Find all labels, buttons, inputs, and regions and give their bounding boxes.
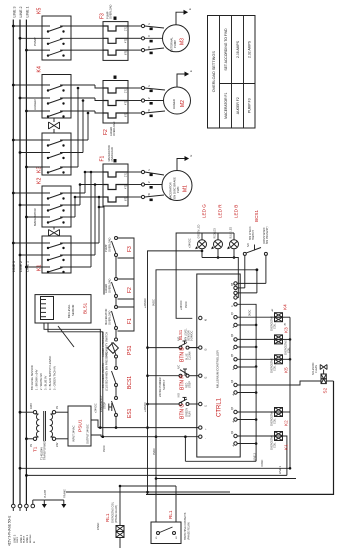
svg-text:4T2: 4T2 [125, 38, 128, 43]
table OVERLOAD SETTINGS [208, 16, 256, 129]
earth arrow M2 [177, 70, 193, 87]
controller outputs Q7..Q1 with terminals [232, 311, 237, 445]
wire to bin level sensor [99, 207, 104, 295]
svg-text:CTRL1: CTRL1 [217, 397, 223, 417]
svg-text:OVERLOAD: OVERLOAD [109, 4, 113, 19]
overload F1 [100, 145, 129, 206]
svg-text:OUTPUT 24VDC: OUTPUT 24VDC [86, 424, 90, 444]
node LINE 3 bus [12, 20, 14, 505]
svg-text:F2: F2 [103, 129, 109, 135]
svg-text:COIL: COIL [274, 418, 277, 424]
motor M2 [164, 87, 191, 114]
svg-text:24VDC POWER: 24VDC POWER [158, 377, 162, 397]
mechanical interlock K2-K1 [49, 227, 60, 236]
svg-text:ES1: ES1 [127, 408, 133, 418]
svg-text:PUMP: PUMP [173, 40, 177, 48]
svg-text:6T3: 6T3 [125, 112, 128, 117]
svg-text:RL1: RL1 [105, 513, 110, 522]
svg-text:1 : BROWN +24V: 1 : BROWN +24V [35, 369, 39, 390]
svg-text:U: U [148, 85, 151, 87]
relay coil RL1 [97, 486, 124, 548]
control chain: bin check switch BCS1 [101, 352, 133, 397]
svg-text:0VDC: 0VDC [152, 448, 156, 455]
svg-text:3 : BLUE 0V: 3 : BLUE 0V [44, 375, 48, 390]
wire LED top common [176, 233, 234, 318]
svg-text:SUPPLY: SUPPLY [162, 379, 166, 390]
svg-text:E: E [189, 155, 193, 157]
svg-text:F2: F2 [127, 287, 133, 293]
svg-text:5 : GREEN TACH-IN: 5 : GREEN TACH-IN [53, 366, 57, 390]
svg-text:4T2: 4T2 [125, 184, 128, 189]
bin check switch BCS1 top [243, 210, 269, 288]
wire bottom rail corner [146, 381, 334, 494]
power supply PSU1 [68, 406, 91, 446]
mechanical interlock K4-K3 [49, 118, 60, 133]
svg-text:2T1: 2T1 [125, 26, 128, 31]
svg-text:(CLOSED WHEN BIN PRESENT): (CLOSED WHEN BIN PRESENT) [104, 352, 108, 391]
button BTN R [148, 365, 199, 390]
svg-text:415V: 415V [30, 403, 33, 409]
motor M1 [162, 171, 192, 201]
svg-text:FRAME: FRAME [64, 489, 67, 498]
svg-text:LINE 2: LINE 2 [19, 534, 23, 543]
wire PSU1 outputs [91, 403, 106, 452]
svg-text:LINE 2: LINE 2 [19, 7, 23, 18]
wire coil return rail [289, 317, 291, 468]
svg-text:PUMP: PUMP [104, 244, 108, 252]
svg-text:SWITCH: SWITCH [252, 230, 255, 240]
svg-text:LINE 1: LINE 1 [26, 7, 30, 18]
svg-text:MILLENIUM CONTROLLER: MILLENIUM CONTROLLER [216, 349, 220, 388]
svg-text:K5: K5 [284, 367, 289, 373]
control chain: emergency stop ES1 [99, 395, 133, 428]
svg-text:AUGER: AUGER [33, 98, 37, 110]
control chain: proximity switch PS1 [101, 332, 133, 367]
svg-text:S2: S2 [323, 387, 328, 393]
svg-text:CLEAN: CLEAN [189, 351, 192, 360]
wires F3 to motor M3 with terminals [128, 23, 164, 55]
node LINE 2 bus [19, 20, 21, 505]
wire dot column [237, 324, 257, 462]
svg-text:OVERLOAD: OVERLOAD [107, 237, 111, 252]
svg-text:4 : BLACK SUPPLY 0-24VDC: 4 : BLACK SUPPLY 0-24VDC [48, 356, 52, 390]
svg-text:BROWN: BROWN [30, 534, 32, 543]
svg-text:K1: K1 [284, 444, 289, 450]
svg-text:U: U [148, 169, 151, 171]
svg-text:K3: K3 [37, 167, 43, 173]
svg-text:LINE 3: LINE 3 [12, 534, 16, 543]
wire T1 secondary to PSU1 [56, 411, 68, 413]
svg-text:2.32 AMPS: 2.32 AMPS [248, 40, 252, 58]
coil K2 [237, 408, 290, 427]
wire tag F2 [114, 76, 117, 79]
svg-text:FWD: FWD [176, 187, 180, 193]
svg-text:0VDC: 0VDC [103, 445, 106, 452]
control chain: aux contact F1 [104, 306, 134, 339]
svg-text:LINE 2: LINE 2 [253, 453, 257, 461]
coil K5 [237, 355, 291, 373]
svg-text:24V: 24V [56, 442, 59, 447]
svg-text:GREY: GREY [17, 536, 19, 543]
svg-text:N/C: N/C [247, 243, 250, 247]
svg-text:BLS1: BLS1 [83, 302, 88, 314]
svg-text:SENSOR: SENSOR [71, 305, 75, 316]
svg-text:K2: K2 [284, 420, 289, 426]
svg-text:COIL: COIL [274, 365, 277, 371]
svg-text:0VDC: 0VDC [152, 299, 156, 306]
svg-text:0VDC: 0VDC [260, 459, 264, 466]
svg-text:M3: M3 [180, 38, 186, 45]
svg-text:F1: F1 [127, 318, 133, 324]
svg-text:MACERATOR: MACERATOR [104, 309, 108, 325]
svg-text:AUGER F2: AUGER F2 [236, 97, 240, 114]
svg-text:F3: F3 [100, 13, 106, 19]
svg-text:COIL: COIL [274, 323, 277, 329]
svg-text:OVERLOAD: OVERLOAD [107, 278, 111, 293]
contactor K3 [12, 133, 88, 175]
svg-text:BCS1: BCS1 [254, 210, 259, 222]
svg-text:LINE 1: LINE 1 [278, 466, 282, 474]
svg-text:K3: K3 [284, 327, 289, 333]
coil K1 [237, 432, 288, 476]
svg-text:E: E [188, 8, 192, 10]
control chain: aux contact F2 [104, 278, 134, 308]
svg-text:0V: 0V [30, 444, 33, 447]
wire LED bottom common [202, 258, 238, 298]
earth arrow M1 [177, 155, 193, 171]
svg-text:M1: M1 [183, 185, 189, 192]
svg-text:+24VDC: +24VDC [95, 403, 98, 413]
wire K1 outputs crossing to F1 [90, 171, 101, 267]
overload F3 [100, 4, 129, 60]
svg-text:INPUT 24VAC: INPUT 24VAC [72, 425, 76, 442]
svg-text:K4: K4 [37, 66, 43, 72]
coil K4 [237, 304, 290, 331]
wire RL1 links [120, 485, 176, 487]
wire T1 primary to buses [20, 411, 33, 413]
svg-text:K2: K2 [37, 178, 43, 184]
wire K4 outputs to F2 [95, 85, 103, 113]
svg-text:0VDC: 0VDC [249, 309, 252, 316]
svg-text:LED R: LED R [218, 204, 223, 218]
svg-text:PS1: PS1 [127, 345, 133, 355]
wire rail LINE1 [19, 466, 292, 474]
LED G [195, 204, 206, 258]
svg-text:MACERATOR F1: MACERATOR F1 [224, 92, 228, 118]
svg-text:415V 3-PHASE 50Hz: 415V 3-PHASE 50Hz [8, 515, 12, 546]
earth arrow M3 [176, 8, 192, 25]
wire rail LINE2 [25, 453, 287, 477]
wire supply to controller - [101, 436, 199, 438]
svg-text:+24VDC: +24VDC [189, 238, 192, 248]
controller top output terminals [232, 282, 266, 325]
svg-text:T1: T1 [33, 446, 38, 452]
button BTN G [148, 393, 199, 419]
wire K2 outputs to F1 [74, 171, 103, 217]
svg-text:N/O: N/O [178, 393, 181, 397]
svg-text:6T3: 6T3 [125, 50, 128, 55]
earth frame [44, 489, 66, 508]
svg-text:LINE 3: LINE 3 [12, 261, 16, 272]
svg-text:AUGER: AUGER [104, 284, 108, 293]
contactor K4 [12, 66, 95, 118]
svg-text:F3: F3 [127, 246, 133, 252]
svg-text:E: E [189, 70, 193, 72]
svg-text:0V: 0V [56, 406, 59, 409]
svg-text:K4: K4 [283, 304, 288, 310]
legend bin level sensor wiring [30, 326, 74, 390]
svg-text:4T2: 4T2 [125, 100, 128, 105]
svg-text:K1: K1 [37, 265, 43, 271]
svg-text:COIL: COIL [274, 442, 277, 448]
transformer T1 [30, 403, 59, 460]
svg-text:BIN LEVEL SENSOR: BIN LEVEL SENSOR [30, 365, 34, 390]
svg-text:-: - [203, 438, 207, 439]
svg-text:2T1: 2T1 [125, 172, 128, 177]
wires F2 to motor M2 with terminals [128, 85, 165, 118]
contactor K2 [12, 178, 85, 227]
svg-text:BIN LEVEL: BIN LEVEL [67, 304, 71, 318]
svg-text:U: U [148, 23, 151, 25]
svg-text:M2: M2 [180, 100, 186, 107]
LED R [211, 204, 222, 259]
svg-text:LINE 2: LINE 2 [19, 261, 23, 272]
solenoid S2 [237, 362, 333, 393]
coil K3 [237, 327, 291, 355]
svg-text:+24VDC: +24VDC [180, 300, 183, 310]
svg-text:BIN PRESENT): BIN PRESENT) [266, 226, 269, 244]
contactor K5 [12, 8, 103, 60]
svg-text:2 : WHITE N/C: 2 : WHITE N/C [39, 373, 43, 390]
svg-text:E: E [32, 541, 36, 543]
svg-text:6T3: 6T3 [125, 196, 128, 201]
svg-text:AUGER: AUGER [172, 99, 176, 109]
svg-text:24VAC: 24VAC [97, 522, 100, 530]
button BTN B [148, 337, 199, 362]
svg-text:OVERLOAD SETTINGS: OVERLOAD SETTINGS [212, 51, 216, 93]
svg-text:OVERLOAD: OVERLOAD [110, 147, 114, 162]
svg-text:0VDC: 0VDC [185, 301, 188, 308]
wire vertical x185 [184, 437, 186, 462]
svg-text:N/C: N/C [178, 365, 181, 369]
svg-text:BLS1: BLS1 [178, 329, 183, 340]
wire BLS1 to controller [44, 323, 194, 439]
wire tag F1 [114, 159, 117, 162]
svg-text:RL1: RL1 [168, 510, 173, 519]
svg-text:SET ACCORDING TO FWD: SET ACCORDING TO FWD [224, 28, 228, 71]
svg-text:2T1: 2T1 [125, 88, 128, 93]
wire 0VDC rail B [152, 268, 259, 478]
svg-text:2.08 AMPS: 2.08 AMPS [236, 40, 240, 58]
wire tag F3 [114, 17, 117, 20]
supply terminals 415V [8, 500, 36, 546]
controller CTRL1 [197, 274, 240, 457]
wire 24vac rail [66, 491, 230, 493]
svg-text:(PHASE RELAY): (PHASE RELAY) [115, 505, 118, 523]
svg-text:LINE 3: LINE 3 [12, 7, 16, 18]
svg-text:F1: F1 [100, 155, 106, 161]
svg-text:0-24VDC: 0-24VDC [191, 331, 194, 341]
overload F2 [103, 81, 128, 137]
svg-text:PSU1: PSU1 [78, 419, 84, 432]
svg-text:+24VDC: +24VDC [143, 298, 147, 308]
contactor K1 [12, 236, 99, 273]
controller input terminals [199, 316, 208, 439]
svg-text:PLANT: PLANT [44, 489, 47, 498]
motor M3 [163, 25, 190, 52]
relay contact RL1 [151, 479, 191, 544]
svg-text:OVERLOAD: OVERLOAD [112, 121, 116, 136]
sensor BLS1 [35, 295, 91, 323]
svg-text:OVERLOAD: OVERLOAD [107, 310, 111, 325]
wires F1 to motor M1 with terminals [128, 169, 164, 202]
svg-text:TRANSFORMER: TRANSFORMER [44, 441, 47, 461]
svg-text:(PHASE RELAY): (PHASE RELAY) [188, 522, 191, 540]
wire +24VDC rail A [143, 250, 203, 495]
wire rail B extension [156, 478, 296, 480]
svg-text:LED B: LED B [234, 205, 239, 218]
svg-text:LINE 1: LINE 1 [25, 534, 29, 543]
svg-text:K5: K5 [37, 8, 43, 14]
svg-text:LED G: LED G [202, 204, 207, 218]
LED B [227, 205, 238, 259]
svg-text:GREEN LED: GREEN LED [198, 224, 201, 238]
wire supply to controller + [98, 427, 199, 429]
svg-text:BLACK: BLACK [23, 535, 26, 543]
svg-text:STOP: STOP [189, 381, 192, 388]
node LINE 1 bus [25, 20, 27, 505]
svg-text:RUN: RUN [189, 411, 192, 417]
earth plant [33, 489, 47, 508]
wire K3 outputs crossing to F2 [77, 87, 90, 167]
control chain: aux contact F3 [104, 237, 134, 280]
svg-text:PUMP F3: PUMP F3 [248, 98, 252, 113]
svg-text:BCS1: BCS1 [127, 376, 133, 389]
svg-text:CLEAN: CLEAN [315, 365, 318, 373]
